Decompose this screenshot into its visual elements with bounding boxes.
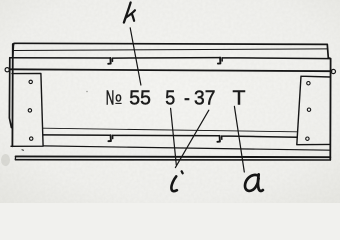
top plank line L1 [14,43,327,44]
svg-text:5: 5 [165,88,175,110]
right plank end vertical [327,44,328,58]
bottom band left end vertical [14,156,16,159]
label i dot [182,171,183,173]
svg-text:o: o [115,90,121,104]
left end outer vertical [9,58,11,128]
svg-text:55: 55 [129,87,151,109]
left towing eye ring [5,68,9,72]
top plank line L2 [14,49,327,51]
left plate rivet 3 [30,137,33,140]
upper band top line L3 right segment [222,58,331,61]
right plate rivet 3 [306,137,309,140]
lower line C [43,146,330,150]
faint scan smudge [1,154,10,166]
leader from i to month digit [171,108,177,164]
label a glyph [245,175,259,191]
upper band top line L3 left segment [10,57,110,59]
left plank end vertical [12,44,15,57]
tiny ink speck [86,91,88,93]
bottom band bottom line E [16,159,331,161]
svg-text:N: N [106,88,115,110]
lower band line B left segment [43,134,111,136]
lower band line B right segment [222,136,297,139]
left plate rivet 2 [28,109,31,112]
left gusset plate [11,74,43,147]
label k glyph [124,3,131,23]
svg-text:-: - [184,88,190,110]
right plate rivet 2 [307,108,310,111]
leader from i to year digits [175,110,208,167]
left end inner vertical [11,44,13,146]
left plate rivet 1 [29,80,32,83]
upper band splice joggle right [218,58,221,64]
numero sign underline [115,102,121,104]
leader from a to letter T [234,106,244,172]
stencilled number text [106,87,246,109]
lower band line B mid segment [113,135,220,138]
right end main vertical [328,58,330,160]
upper band bottom line L4 [10,69,332,71]
lower band splice joggle left [108,135,111,141]
lower thin line A [43,128,297,132]
leader from k to number [130,28,141,85]
right towing eye ring [331,69,335,73]
stray tick below left plate [22,149,24,151]
svg-text:37: 37 [194,88,215,110]
right plate rivet 1 [307,82,310,85]
upper band top line L3 mid segment [112,58,220,62]
label i glyph [171,176,177,191]
lower band splice joggle right [217,136,220,142]
upper band splice joggle left [108,58,111,64]
right gusset plate [297,76,330,145]
bottom band top line D [16,155,331,158]
